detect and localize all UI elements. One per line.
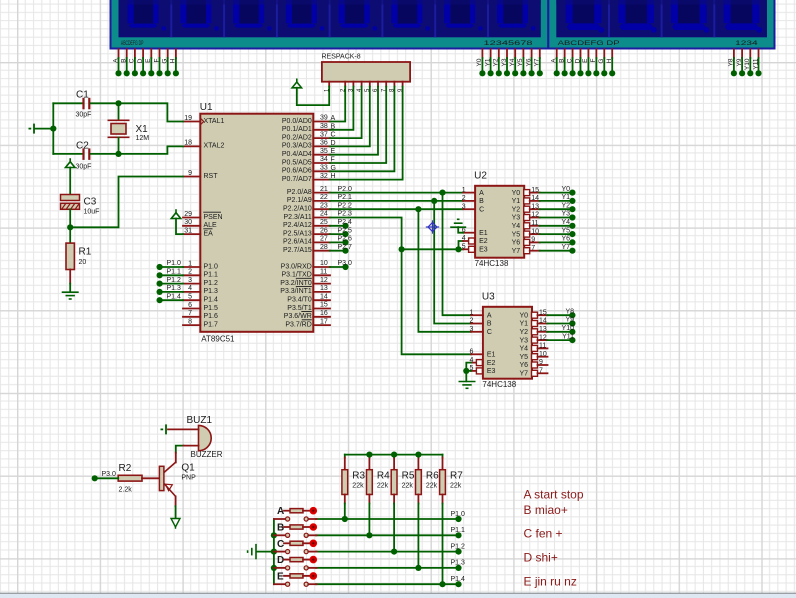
pin stub [313,145,330,147]
node net Y10 [569,329,575,335]
svg-text:30pF: 30pF [76,112,92,119]
pin stub [328,82,330,87]
svg-text:Y0: Y0 [512,190,521,197]
svg-text:P1.7: P1.7 [204,321,219,328]
resistor R3 [342,455,366,504]
wire [579,58,581,73]
decoder U3 74HC138 body [483,307,532,379]
capacitor C2 [53,141,118,171]
U3 output Y7 pin 7 [532,370,538,376]
pin stub [313,241,330,243]
junction [569,70,575,76]
wire C1-C2 left [52,103,54,154]
svg-text:13: 13 [539,326,547,333]
svg-text:39: 39 [320,115,328,122]
svg-text:26: 26 [320,227,328,234]
button C [274,539,317,554]
svg-text:P2.2/A10: P2.2/A10 [283,206,312,213]
pin stub [183,308,200,310]
node P1.1 [157,272,163,278]
junction [504,70,510,76]
svg-text:Y1: Y1 [512,198,521,205]
wire P0.4 to RESPACK pin 6 [330,87,378,155]
wire [160,266,183,268]
wire [531,58,533,73]
pin stub [490,49,492,58]
pin stub [284,510,290,512]
svg-text:2.2k: 2.2k [119,487,133,494]
wire [118,58,120,73]
svg-text:B: B [558,59,565,63]
svg-text:B: B [277,523,284,534]
pin stub [741,49,743,58]
wire [160,299,183,301]
node P2.6 [342,239,348,245]
svg-text:P2.0: P2.0 [338,186,353,193]
svg-text:R7: R7 [450,471,463,482]
wire [368,455,370,458]
svg-text:Y3: Y3 [519,337,528,344]
svg-text:10uF: 10uF [84,209,100,216]
wire [547,331,572,333]
svg-text:E: E [277,571,284,582]
svg-text:5: 5 [188,294,192,301]
wire [368,504,370,536]
svg-text:1: 1 [188,260,192,267]
pin stub [595,49,597,58]
svg-text:R4: R4 [377,471,390,482]
capacitor C1 [53,90,118,119]
svg-text:P2.3/A11: P2.3/A11 [284,214,312,221]
svg-text:Y6: Y6 [512,240,521,247]
svg-text:74HC138: 74HC138 [475,259,509,268]
svg-text:BUZ1: BUZ1 [187,415,213,426]
U2 output Y4 pin 11 [524,223,530,229]
svg-text:18: 18 [184,140,192,147]
svg-text:E: E [145,58,152,63]
junction [140,70,146,76]
svg-text:A start stop: A start stop [524,487,584,501]
wire P2.2 to U2 C [330,208,463,210]
node R7 to row [439,581,445,587]
wire [556,58,558,73]
pin stub [284,575,290,577]
pin stub [344,495,346,504]
svg-text:P1.1: P1.1 [451,527,466,534]
pin stub [183,176,200,178]
U2 output Y3 pin 12 [524,215,530,221]
pin stub [530,241,540,243]
pin stub [572,49,574,58]
U3 output Y1 pin 14 [532,321,538,327]
svg-text:E1: E1 [487,352,496,359]
wire P3.0 net stub [330,266,346,268]
svg-text:R6: R6 [426,471,439,482]
wire [522,58,524,73]
pin stub [142,49,144,58]
node net Y7 [569,248,575,254]
node net P1.1 [455,532,461,538]
pin stub [579,49,581,58]
svg-text:12: 12 [539,334,547,341]
svg-text:A: A [487,312,492,319]
wire [167,58,169,73]
pin stub [274,518,286,520]
crystal X1 [108,103,150,154]
svg-text:28: 28 [320,244,328,251]
junction [609,70,615,76]
svg-text:U3: U3 [482,291,495,302]
pin stub [313,299,330,301]
resistor R2 [118,463,142,494]
svg-text:P0.7/AD7: P0.7/AD7 [282,176,312,183]
svg-text:U2: U2 [474,170,487,181]
wire P2.0 to U2 A [330,192,463,194]
svg-text:P3.7/RD: P3.7/RD [285,321,311,328]
wire [539,58,541,73]
svg-text:P0.6/AD6: P0.6/AD6 [282,168,312,175]
digit cell 2 of DS2 [609,0,657,37]
svg-text:6: 6 [469,349,473,356]
wire [330,250,346,252]
pin stub [530,250,540,252]
junction [124,70,130,76]
wire [330,233,346,235]
svg-text:29: 29 [184,211,192,218]
svg-text:C: C [277,539,284,550]
svg-text:P1.4: P1.4 [167,293,182,300]
pin stub [463,240,469,242]
svg-text:P3.0: P3.0 [102,471,117,478]
node P2.2 tap [415,206,421,212]
wire [540,192,573,194]
svg-text:RST: RST [204,173,219,180]
display pin net D [137,49,146,76]
pin stub [417,458,419,470]
wire P0.5 to RESPACK pin 7 [330,87,386,164]
svg-text:9: 9 [539,359,543,366]
U3 output Y2 pin 13 [532,329,538,335]
svg-text:31: 31 [184,227,192,234]
wire [150,58,152,73]
wire to XTAL1 [119,103,184,121]
svg-text:Y7: Y7 [512,248,521,255]
pin stub [463,200,475,202]
U2 output Y1 pin 14 [524,198,530,204]
svg-text:4: 4 [188,285,192,292]
svg-text:P2.2: P2.2 [338,202,353,209]
pin stub [303,526,310,528]
junction [585,70,591,76]
wire [134,58,136,73]
pin stub [463,232,475,234]
wire P0.3 to RESPACK pin 5 [330,87,370,147]
svg-text:27: 27 [320,236,328,243]
pin stub [611,49,613,58]
buzzer BUZ1 [187,415,223,459]
svg-text:E2: E2 [479,238,488,245]
svg-text:P1.2: P1.2 [204,280,219,287]
svg-text:P1.3: P1.3 [204,288,219,295]
wire [118,138,120,154]
wire to ground bar [36,128,54,130]
pin stub [284,542,290,544]
svg-text:P2.7/A15: P2.7/A15 [283,247,312,254]
wire [547,323,572,325]
svg-text:P0.4/AD4: P0.4/AD4 [282,151,312,158]
svg-text:Y11: Y11 [562,333,574,340]
pin stub [313,316,330,318]
svg-text:Y4: Y4 [519,346,528,353]
svg-text:ABCDEFG DP: ABCDEFG DP [558,40,620,47]
pin stub [313,162,330,164]
svg-text:33: 33 [320,165,328,172]
pin stub [313,324,330,326]
U3 output Y0 pin 15 [532,312,538,318]
pin stub [538,356,548,358]
svg-text:20: 20 [79,259,87,266]
svg-text:Y5: Y5 [517,58,524,66]
wire R2 to Q1 base [142,477,159,479]
digit cell 4 of DS2 [714,0,762,37]
pin stub [393,495,395,504]
node button bus junction [271,549,277,555]
junction [488,70,494,76]
wire [393,504,395,552]
wire P2.2 to U3 C [418,209,471,332]
svg-text:74HC138: 74HC138 [482,380,516,389]
svg-text:P3.4/T0: P3.4/T0 [287,297,312,304]
svg-text:D: D [137,58,144,63]
pin stub [159,49,161,58]
wire P3.0 to R2 [95,477,119,479]
svg-text:1: 1 [469,309,473,316]
svg-text:37: 37 [320,131,328,138]
svg-text:Y7: Y7 [561,244,570,251]
svg-text:12345678: 12345678 [484,40,534,47]
node R6 to row [415,565,421,571]
svg-text:22: 22 [320,194,328,201]
node P2.1 tap [431,198,437,204]
pin stub [313,170,330,172]
wire [126,58,128,73]
node rail R5 [391,452,397,458]
svg-text:E3: E3 [479,247,488,254]
wire [540,233,573,235]
pin stub [274,567,286,569]
display pin net E [145,49,154,76]
svg-text:C: C [487,329,492,336]
svg-text:P2.4: P2.4 [338,219,353,226]
svg-text:15: 15 [320,302,328,309]
svg-text:RESPACK-8: RESPACK-8 [322,54,361,61]
svg-text:7: 7 [531,245,535,252]
node button bus junction [271,565,277,571]
junction [593,70,599,76]
svg-text:F: F [590,58,597,62]
pin stub [522,49,524,58]
svg-text:36: 36 [320,140,328,147]
svg-text:F: F [153,58,160,62]
wire [611,58,613,73]
svg-text:2: 2 [469,318,473,325]
svg-text:Y8: Y8 [728,58,735,66]
wire [481,58,483,73]
pin stub [530,192,540,194]
transistor Q1 PNP [159,462,196,496]
pin stub [758,49,760,58]
svg-text:E: E [582,58,589,63]
svg-text:P1.0: P1.0 [451,511,466,518]
svg-text:C3: C3 [84,197,97,208]
svg-text:B: B [121,59,128,63]
svg-text:Y11: Y11 [752,58,759,69]
display pin net Y7 [534,49,543,76]
pin stub [587,49,589,58]
display pin net Y9 [736,49,745,76]
svg-text:2: 2 [462,195,466,202]
pin stub [463,192,475,194]
power bar left of buzzer [161,424,167,434]
node P3.0 at R2 [92,475,98,481]
pin stub [303,575,310,577]
decoder U2 74HC138 body [475,186,524,258]
wire [733,58,735,73]
pin stub [471,323,483,325]
node U3 E2/E3 junction [463,368,469,374]
svg-text:11: 11 [539,343,546,350]
display pin net B [121,49,130,76]
node net Y2 [569,206,575,212]
junction [755,70,761,76]
node net Y3 [569,214,575,220]
svg-text:U1: U1 [200,102,213,113]
button A [274,506,317,521]
pin stub [175,453,177,463]
wire [442,504,444,585]
display pin net Y3 [501,49,510,76]
pin stub [150,49,152,58]
wire [330,225,346,227]
pin stub [303,542,310,544]
pin stub [308,551,316,553]
node XTAL1 junction [115,100,121,106]
wire [142,58,144,73]
pin stub [284,559,290,561]
wire [540,208,573,210]
svg-text:P0.3/AD3: P0.3/AD3 [282,143,312,150]
wire P0.6 to RESPACK pin 8 [330,87,394,172]
svg-text:Y2: Y2 [519,329,528,336]
svg-text:P1.1: P1.1 [167,269,182,276]
pin stub [313,200,330,202]
bottom window strip [0,593,796,595]
wire to U2 E2 [459,241,464,249]
svg-text:Y1: Y1 [519,321,528,328]
svg-text:Y6: Y6 [525,58,532,66]
node net Y11 [569,337,575,343]
pin stub [274,551,286,553]
ground left of buttons [248,544,256,559]
pin stub [175,496,177,506]
digit cell 7 of DS1 [435,0,483,37]
node net Y0 [569,190,575,196]
pin stub [183,283,200,285]
svg-text:P1.2: P1.2 [167,277,182,284]
svg-text:22k: 22k [402,483,414,490]
svg-text:P1.3: P1.3 [167,285,182,292]
pin stub [183,291,200,293]
wire [160,283,183,285]
svg-text:E3: E3 [487,368,496,375]
wire [175,58,177,73]
pin stub [368,458,370,470]
pin stub [402,82,404,87]
junction [562,70,568,76]
pin stub [514,49,516,58]
svg-text:Y9: Y9 [565,317,574,324]
pin stub [369,82,371,87]
junction [173,70,179,76]
wire [514,58,516,73]
svg-text:R1: R1 [79,247,92,258]
pin stub [303,510,310,512]
wire [540,217,573,219]
pin stub [308,567,316,569]
node E2/E3 junction U2 [455,246,461,252]
svg-text:A: A [112,58,119,63]
svg-text:C fen +: C fen + [524,527,563,541]
pin stub [183,324,200,326]
wire [506,58,508,73]
pin stub [308,518,316,520]
svg-text:3: 3 [462,203,466,210]
pin stub [538,314,548,316]
svg-text:P0.1/AD1: P0.1/AD1 [282,126,312,133]
svg-text:P2.1: P2.1 [338,194,353,201]
svg-text:PSEN: PSEN [204,214,223,221]
wire [316,583,459,585]
svg-text:P1.2: P1.2 [451,543,466,550]
7-segment display DS2 [548,0,774,49]
svg-text:D: D [277,555,284,566]
display pin net Y4 [509,49,518,76]
pin stub [274,534,286,536]
junction [537,70,543,76]
pin stub [538,364,548,366]
wire [344,504,346,520]
wire [540,225,573,227]
wire P2.3 branch to U2 E3 [402,248,464,250]
XTAL1 clock mark [201,119,204,125]
svg-text:Y0: Y0 [561,186,570,193]
pin stub [530,200,540,202]
pin stub [313,308,330,310]
svg-text:Y6: Y6 [561,236,570,243]
wire [572,58,574,73]
junction [731,70,737,76]
pin stub [530,233,540,235]
wire [118,103,120,120]
pin stub [417,495,419,504]
pin stub [118,49,120,58]
display pin net A [112,49,121,76]
svg-text:Y3: Y3 [512,215,521,222]
node R3 to row [342,516,348,522]
pin stub [749,49,751,58]
svg-text:P2.3: P2.3 [338,211,353,218]
svg-text:A: A [551,58,558,63]
